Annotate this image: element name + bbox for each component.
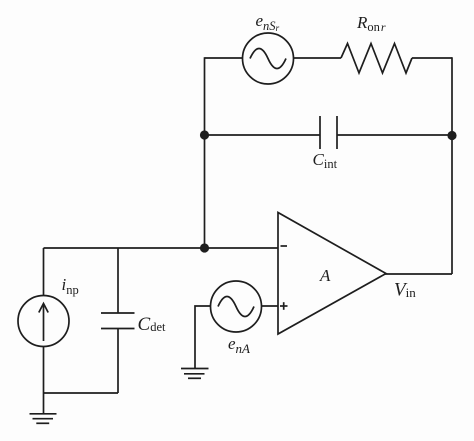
svg-text:inp: inp bbox=[62, 275, 79, 297]
ground under e_nA bbox=[181, 369, 209, 379]
op-amp A bbox=[278, 213, 386, 335]
node junction inverting input bbox=[200, 243, 209, 252]
wire top-left horizontal to source bbox=[205, 57, 244, 59]
wire inverting input bbox=[44, 247, 279, 249]
wire right rail vertical bbox=[451, 57, 453, 274]
op-amp plus sign bbox=[280, 302, 288, 310]
wire bottom horizontal bbox=[44, 392, 119, 394]
wire left rail vertical bbox=[204, 57, 206, 248]
op-amp minus sign bbox=[281, 245, 288, 247]
svg-text:enA: enA bbox=[228, 334, 250, 356]
voltage source e_nA bbox=[211, 281, 262, 332]
wire i_np branch top vertical bbox=[43, 248, 45, 296]
voltage source e_nSr bbox=[243, 33, 294, 84]
svg-text:Cint: Cint bbox=[313, 150, 338, 171]
ground bottom-left bbox=[30, 414, 57, 424]
wire e_nA to ground bbox=[195, 306, 211, 368]
svg-text:enSr: enSr bbox=[256, 11, 280, 34]
svg-text:A: A bbox=[319, 266, 331, 285]
wire e_nA to plus input bbox=[262, 305, 279, 307]
capacitor C_det bbox=[101, 248, 135, 393]
svg-text:Cdet: Cdet bbox=[138, 314, 166, 335]
wire C_int left bbox=[205, 134, 321, 136]
node junction C_int right bbox=[447, 131, 456, 140]
wire C_int right bbox=[337, 134, 452, 136]
svg-text:Vin: Vin bbox=[394, 280, 416, 301]
resistor R_onr bbox=[341, 44, 412, 74]
node junction C_int left bbox=[200, 130, 209, 139]
wire i_np branch bottom vertical bbox=[43, 347, 45, 414]
capacitor C_int bbox=[320, 116, 337, 149]
wire e_nSr to resistor bbox=[294, 57, 342, 59]
wire op-amp output bbox=[385, 273, 452, 275]
wire resistor to right rail bbox=[412, 57, 452, 59]
svg-text:Ronr: Ronr bbox=[356, 13, 386, 34]
current source i_np bbox=[18, 296, 69, 347]
